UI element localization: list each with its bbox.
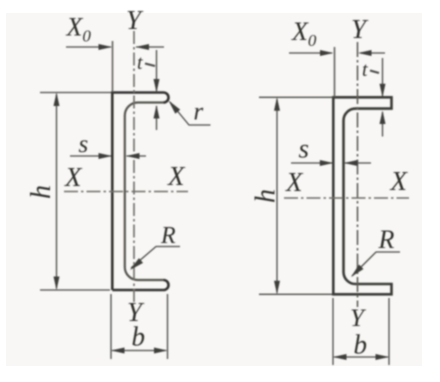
axis Y (vertical dash-dot centre line) bbox=[133, 31, 135, 302]
channel inner surface lines (left figure) bbox=[125, 103, 164, 281]
dimension line t upper (right) bbox=[382, 58, 384, 96]
dimension line s right part (right) bbox=[345, 162, 371, 164]
axis X right (horizontal dash-dot) bbox=[284, 197, 409, 199]
svg-text:R: R bbox=[378, 225, 395, 254]
label t leader smear (right) bbox=[370, 71, 379, 74]
extension line b right bbox=[167, 294, 169, 359]
arrowhead t down-pointing bbox=[154, 79, 160, 93]
dimension line s left part bbox=[70, 155, 111, 157]
svg-text:s: s bbox=[299, 134, 310, 164]
leader R (right) bbox=[352, 252, 400, 276]
arrowhead leader r bbox=[169, 101, 181, 114]
svg-text:b: b bbox=[132, 322, 146, 352]
axis Y right (vertical dash-dot) bbox=[357, 42, 359, 307]
svg-text:t: t bbox=[137, 52, 143, 74]
svg-text:R: R bbox=[160, 223, 176, 249]
arrowhead b right-pointing bbox=[154, 348, 168, 354]
dimension line h bbox=[56, 94, 58, 289]
dimension line t lower (right) bbox=[382, 112, 384, 137]
label t leader smear (left) bbox=[145, 64, 155, 67]
extension line h bottom (right) bbox=[259, 293, 332, 295]
dimension line t upper bbox=[156, 50, 158, 91]
svg-text:h: h bbox=[251, 189, 282, 203]
svg-text:X: X bbox=[64, 162, 83, 192]
dimension line X0 left part bbox=[66, 46, 111, 48]
dimension line X0 right part (right) bbox=[360, 52, 385, 54]
arrowhead s left-pointing bbox=[126, 153, 140, 159]
dimension line s left part (right) bbox=[291, 162, 332, 164]
axis X (horizontal dash-dot centre line) bbox=[64, 191, 188, 193]
dimension line t lower bbox=[156, 106, 158, 130]
arrowhead t up-pointing (right) bbox=[380, 111, 386, 125]
extension line h top bbox=[40, 92, 111, 94]
arrowhead s right-pointing (right) bbox=[320, 160, 334, 166]
leader r bbox=[170, 102, 211, 125]
arrowhead X0 left-pointing bbox=[136, 44, 150, 50]
extension line web face above flange bbox=[112, 41, 114, 92]
arrowhead h up bbox=[54, 93, 60, 107]
arrowhead h up (right) bbox=[274, 97, 280, 111]
arrowhead X0 left-pointing (right) bbox=[358, 50, 372, 56]
dimension line b (right) bbox=[334, 356, 388, 358]
arrowhead X0 right-pointing (right) bbox=[320, 50, 334, 56]
dimension line X0 right part bbox=[136, 46, 164, 48]
dimension line s right part bbox=[127, 155, 147, 157]
arrowhead b left-pointing bbox=[111, 348, 125, 354]
arrowhead h down (right) bbox=[274, 281, 280, 295]
extension line web face above flange (right) bbox=[334, 47, 336, 97]
svg-text:X: X bbox=[285, 167, 304, 197]
arrowhead b right-pointing (right) bbox=[376, 354, 390, 360]
svg-text:X: X bbox=[167, 161, 186, 191]
arrowhead leader R bbox=[130, 258, 143, 270]
svg-text:r: r bbox=[194, 99, 204, 126]
arrowhead t up-pointing bbox=[154, 105, 160, 119]
arrowhead X0 right-pointing bbox=[99, 44, 113, 50]
channel profile outline (right figure) bbox=[333, 97, 391, 294]
svg-text:h: h bbox=[26, 185, 57, 199]
extension line h top (right) bbox=[259, 96, 333, 98]
extension line b left (right) bbox=[332, 298, 334, 365]
arrowhead s right-pointing bbox=[99, 153, 113, 159]
channel profile outline (left figure) bbox=[112, 93, 168, 291]
leader R bbox=[131, 247, 180, 269]
svg-text:t: t bbox=[362, 59, 368, 81]
dimension line b bbox=[112, 350, 166, 352]
extension line b right (right) bbox=[388, 298, 390, 365]
arrowhead s left-pointing (right) bbox=[344, 160, 358, 166]
dimension line h (right) bbox=[276, 99, 278, 293]
svg-text:X: X bbox=[390, 166, 409, 196]
arrowhead h down bbox=[54, 277, 60, 291]
arrowhead leader R (right) bbox=[351, 265, 364, 278]
arrowhead b left-pointing (right) bbox=[333, 354, 347, 360]
arrowhead t down-pointing (right) bbox=[380, 84, 386, 98]
dimension line X0 left part (right) bbox=[289, 52, 332, 54]
extension line h bottom bbox=[40, 289, 110, 291]
extension line b left bbox=[110, 294, 112, 359]
svg-text:b: b bbox=[354, 330, 368, 360]
svg-text:s: s bbox=[79, 131, 89, 158]
